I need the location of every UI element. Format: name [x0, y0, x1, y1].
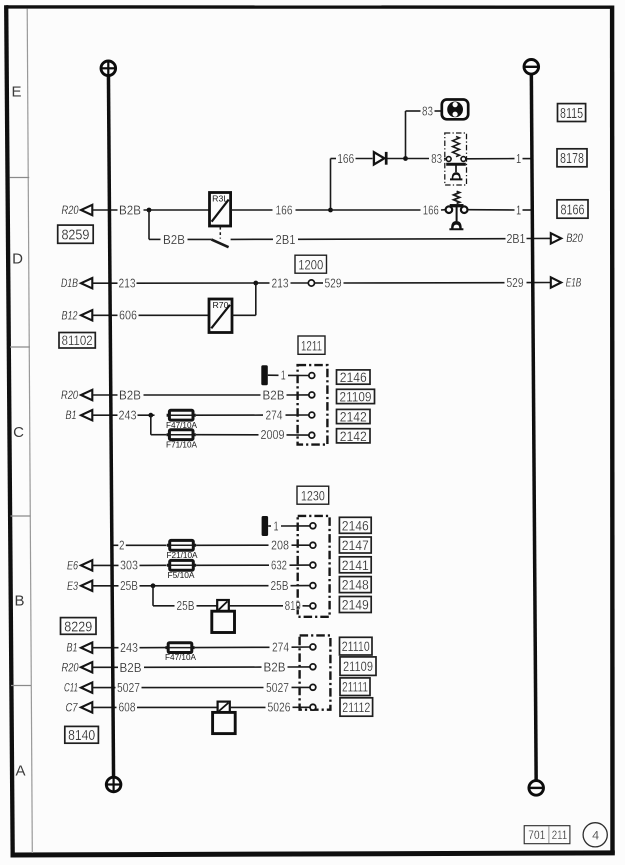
fuse F71/10A: [167, 433, 196, 436]
svg-text:D1B: D1B: [61, 278, 78, 290]
terminal arrow D1B (row y=283): [81, 278, 92, 288]
svg-text:243: 243: [119, 409, 137, 423]
node junction at (150.8,415.2): [148, 413, 153, 418]
svg-text:8259: 8259: [61, 228, 89, 244]
sheet number box 701 211: [524, 826, 570, 844]
pin label box 2148: [339, 577, 371, 593]
svg-text:B2B: B2B: [120, 660, 142, 675]
svg-text:2146: 2146: [340, 369, 367, 385]
pin 1211-3: [309, 412, 315, 418]
pin 21112: [310, 704, 316, 710]
pin 1211-1: [309, 373, 315, 379]
svg-text:5027: 5027: [117, 681, 140, 695]
svg-text:2149: 2149: [342, 597, 369, 613]
pin 21109 (lower): [310, 664, 316, 670]
svg-text:8229: 8229: [64, 619, 92, 635]
wire 2009 fuse to pin (row y=434.7): [196, 434, 259, 436]
svg-text:213: 213: [119, 277, 136, 291]
relay R70 coil box: [209, 299, 232, 333]
relay R3L contact blade: [211, 239, 228, 247]
plus terminal (bottom): [106, 777, 121, 792]
svg-text:1211: 1211: [301, 337, 322, 353]
svg-text:81102: 81102: [62, 333, 93, 348]
pin label box 21112: [340, 698, 373, 716]
wire 208 fuse to pin (row y=545): [196, 544, 268, 546]
svg-text:B2B: B2B: [263, 388, 285, 403]
svg-text:1230: 1230: [301, 487, 325, 503]
wire 1 splice to pin (row y=526): [268, 525, 271, 527]
svg-text:F5/10A: F5/10A: [168, 570, 195, 580]
pin 21110: [310, 644, 316, 650]
motor M (heater pump): [442, 100, 468, 120]
svg-text:2148: 2148: [342, 577, 369, 593]
wire riser x=255.8 rows 283-315: [255, 283, 257, 315]
terminal arrow R20 (row y=210): [81, 205, 92, 215]
connector housing (dash-dot) lower: [300, 635, 331, 709]
svg-text:B20: B20: [566, 233, 583, 245]
svg-text:E6: E6: [67, 560, 78, 572]
connector 1211 label box: [298, 336, 325, 354]
svg-text:608: 608: [119, 701, 136, 715]
svg-text:B1: B1: [66, 410, 77, 422]
minus terminal (bottom): [529, 781, 544, 796]
node junction at (149,210): [147, 208, 152, 213]
svg-text:B2B: B2B: [163, 232, 185, 247]
relay R3L coil box: [210, 193, 231, 227]
wire 243 arrow to fuse F47 (row y=415): [92, 414, 117, 416]
wire 819 unit to pin (row y=605.8): [229, 605, 283, 607]
wire 606 arrow to relay R70: [92, 314, 117, 316]
svg-text:529: 529: [325, 276, 342, 290]
svg-text:5027: 5027: [266, 681, 289, 695]
svg-text:701: 701: [528, 828, 545, 842]
svg-text:B12: B12: [62, 310, 78, 322]
svg-text:2141: 2141: [342, 557, 369, 573]
pin label box 21110: [340, 637, 373, 655]
wire branch riser x=153 rows 585.8-605.8: [152, 586, 154, 606]
wire 274 fuse to pin (row y=415): [196, 414, 263, 416]
wire riser x=330 between rows 158 and 210: [330, 159, 332, 211]
svg-text:1: 1: [281, 369, 286, 383]
terminal arrow B12 (row y=315): [81, 310, 92, 320]
wire B2B arrow to pin (row y=395): [92, 394, 117, 396]
fuse F5/10A: [167, 564, 196, 567]
block label 8178: [557, 149, 587, 167]
pin label box 2147: [339, 537, 371, 553]
wire relay R70 to riser (row y=315): [232, 314, 256, 316]
svg-text:25B: 25B: [271, 579, 289, 593]
fuse F47/10A: [167, 414, 196, 417]
svg-text:F47/10A: F47/10A: [165, 652, 196, 662]
svg-text:21111: 21111: [342, 680, 368, 695]
wire 632 fuse to pin (row y=565): [196, 564, 269, 566]
wire 25B branch to resistor unit (row y=605.8): [153, 605, 175, 607]
svg-text:B2B: B2B: [119, 388, 141, 403]
resistive sensor unit (row y=707.4): [213, 702, 236, 734]
supply splice bar (row y=526): [262, 516, 269, 536]
minus terminal (top): [524, 60, 539, 75]
wire 608 arrow to resistor unit (row y=707.4): [92, 706, 116, 708]
svg-text:83: 83: [422, 104, 433, 118]
svg-text:632: 632: [271, 559, 287, 573]
terminal arrow E1B (row y=282): [551, 277, 561, 287]
terminal arrow B1 (row y=415): [81, 410, 92, 420]
pin 1230-3: [310, 562, 316, 568]
plus supply bus (left vertical): [108, 68, 113, 784]
connector 1211 housing (dash-dot): [298, 365, 328, 445]
svg-text:213: 213: [272, 276, 289, 290]
wire 166 relay R3L to node x=330 (row y=210): [231, 209, 273, 211]
svg-text:F71/10A: F71/10A: [166, 439, 197, 449]
block label 8259: [58, 225, 93, 243]
svg-text:D: D: [12, 251, 23, 268]
svg-text:21110: 21110: [342, 639, 370, 654]
wire 213 arrow to junction (row y=283): [92, 282, 117, 284]
svg-text:F21/10A: F21/10A: [167, 550, 198, 560]
wire 1 thermal switch to minus bus (row y=158): [466, 158, 515, 160]
svg-text:529: 529: [507, 276, 524, 290]
svg-text:4: 4: [592, 831, 600, 843]
block label 8229: [61, 618, 97, 635]
svg-text:B2B: B2B: [119, 203, 141, 218]
supply splice bar (row y=375): [261, 365, 268, 385]
block label 8166: [557, 200, 588, 218]
wire riser x=405.5 between rows 111 and 158: [405, 111, 407, 159]
svg-text:8140: 8140: [68, 728, 95, 744]
svg-text:5026: 5026: [268, 701, 291, 715]
wire branch riser x=149 rows 210-239: [148, 210, 150, 239]
wire 5026 unit to pin (row y=707.4): [230, 706, 266, 708]
svg-text:2147: 2147: [342, 537, 369, 553]
resistive sensor unit (row y=605.8): [212, 600, 235, 633]
svg-text:274: 274: [272, 641, 289, 655]
wire 274 fuse to pin (row y=647): [195, 646, 270, 648]
svg-text:8115: 8115: [560, 106, 583, 122]
connector 1230 label box: [297, 486, 329, 504]
terminal arrow E3 (row y=585.8): [81, 581, 92, 591]
wire 213 junction to connector 1200 (row y=283): [256, 282, 270, 284]
wire 166 node to pressure switch (row y=210): [331, 209, 421, 211]
diode D1: [374, 152, 384, 164]
svg-text:E3: E3: [67, 581, 78, 593]
pin label box 2146: [339, 517, 371, 533]
svg-text:8178: 8178: [560, 151, 584, 167]
pin label box 21109: [337, 389, 375, 403]
pin label box 2142: [337, 429, 371, 443]
svg-text:E: E: [11, 84, 21, 101]
terminal arrow E6 (row y=565.4): [81, 560, 92, 570]
terminal arrow B20 (row y=238): [551, 233, 561, 243]
wire 5027 arrow to pin (row y=687.6): [92, 687, 115, 689]
block label 8115: [558, 104, 586, 122]
connector 1230 housing (dash-dot): [298, 516, 330, 617]
svg-text:2142: 2142: [340, 409, 367, 425]
pin 1230-4: [310, 583, 316, 589]
svg-text:A: A: [15, 763, 25, 780]
terminal arrow C7 (row y=707.4): [81, 702, 92, 712]
wire B2B from arrow R20 to relay R3L: [92, 209, 117, 211]
terminal arrow R20 (row y=395): [81, 390, 92, 400]
svg-text:B2B: B2B: [264, 660, 286, 675]
plus terminal (top): [101, 61, 116, 76]
node junction at (255.8,283): [253, 281, 258, 286]
svg-text:8166: 8166: [561, 202, 585, 218]
svg-text:R20: R20: [62, 205, 79, 217]
svg-text:21109: 21109: [343, 659, 373, 674]
mechanical link (dashed) relay R3L to contact: [219, 227, 221, 239]
svg-text:819: 819: [285, 599, 301, 613]
page index circle 4: [583, 823, 607, 847]
svg-text:C11: C11: [64, 683, 78, 695]
pin 1211-4: [309, 432, 315, 438]
pin 1230-1: [310, 523, 316, 529]
thermal switch with heater (dashed enclosure): [445, 133, 467, 185]
svg-text:R3L: R3L: [212, 194, 229, 203]
wire 1 pressure switch to minus bus (row y=210): [468, 209, 515, 211]
wire 243 arrow to fuse F47 (row y=647.7): [92, 647, 118, 649]
pin label box 21111: [340, 678, 370, 696]
svg-text:83: 83: [431, 152, 442, 166]
pressure switch (oil pressure sender): [446, 191, 468, 230]
wire 83 to thermal switch (row y=158): [406, 158, 430, 160]
svg-text:2142: 2142: [340, 428, 367, 444]
wire 2 plus-bus to fuse F21 (row y=545.3): [112, 544, 118, 546]
svg-text:1200: 1200: [298, 256, 323, 272]
svg-text:274: 274: [266, 408, 283, 422]
pin 1211-2: [309, 392, 315, 398]
pin 21111: [310, 684, 316, 690]
svg-text:303: 303: [120, 559, 138, 573]
svg-text:2B1: 2B1: [507, 231, 526, 246]
svg-text:1: 1: [274, 519, 279, 533]
svg-text:21109: 21109: [340, 389, 372, 404]
wire 25B arrow to pin (row y=585.8): [92, 585, 118, 587]
pin label box 2146: [337, 370, 371, 384]
terminal arrow B1 (row y=647.7): [81, 643, 92, 653]
pin label box 21109: [340, 657, 376, 676]
svg-text:2009: 2009: [261, 428, 285, 442]
svg-text:2B1: 2B1: [276, 232, 296, 247]
wire 529 connector to minus-bus crossing (row y=283): [315, 282, 324, 284]
wire branch riser x=150.8 rows 415-434.7: [150, 415, 152, 435]
svg-text:B1: B1: [67, 643, 78, 655]
wire 1 splice to pin (row y=375): [268, 374, 279, 376]
node junction at (153,585.8): [151, 583, 156, 588]
svg-text:25B: 25B: [120, 579, 138, 593]
svg-text:166: 166: [337, 152, 354, 166]
svg-text:2146: 2146: [342, 517, 369, 533]
svg-text:1: 1: [516, 152, 521, 166]
pin 1230-2: [310, 542, 316, 548]
svg-text:25B: 25B: [177, 599, 195, 613]
inline connector junction (1200): [308, 280, 314, 286]
svg-text:2: 2: [119, 539, 125, 553]
svg-text:166: 166: [276, 203, 293, 217]
svg-text:R70: R70: [213, 301, 230, 310]
svg-text:R20: R20: [61, 390, 78, 402]
svg-text:R20: R20: [62, 662, 79, 674]
svg-text:E1B: E1B: [566, 277, 582, 289]
connector 1200 label box: [295, 255, 327, 273]
node junction at (405.5,158.5): [403, 156, 408, 161]
wire 83 to motor (row y=111): [406, 110, 421, 112]
svg-text:C: C: [13, 424, 24, 441]
wire B2B arrow to pin (row y=667.3): [92, 666, 118, 668]
terminal arrow C11 (row y=687.6): [81, 682, 92, 692]
svg-text:166: 166: [423, 203, 439, 217]
svg-text:21112: 21112: [342, 700, 370, 715]
node junction at (330.5,210): [328, 208, 333, 213]
fuse F47/10A (lower): [165, 646, 194, 649]
pin label box 2142: [337, 409, 371, 423]
svg-text:243: 243: [120, 641, 138, 655]
pin label box 2141: [339, 557, 371, 573]
pin label box 2149: [339, 597, 371, 613]
block label 8140: [65, 726, 99, 743]
svg-text:B: B: [14, 593, 24, 610]
wire 2B1 contact to minus-bus crossing (row y=239): [231, 238, 273, 240]
minus ground bus (right vertical): [531, 68, 536, 788]
fuse F21/10A: [167, 544, 196, 547]
wire diode to node (row y=158): [388, 158, 406, 160]
svg-text:1: 1: [516, 203, 521, 217]
svg-text:211: 211: [552, 828, 568, 842]
pin 1230-5: [310, 603, 316, 609]
svg-text:C7: C7: [66, 702, 78, 714]
svg-text:606: 606: [119, 309, 137, 323]
svg-text:208: 208: [271, 539, 289, 553]
terminal arrow R20 (row y=667.3): [81, 662, 92, 672]
wire to fuse F71 (row y=434.7): [151, 434, 167, 436]
wire B2B to relay contact (row y=239): [149, 238, 161, 240]
wire 303 arrow to fuse F5 (row y=565): [92, 564, 118, 566]
wire 166 segment from elbow x=330 (row y=158): [331, 158, 337, 160]
block label 81102: [59, 333, 95, 349]
